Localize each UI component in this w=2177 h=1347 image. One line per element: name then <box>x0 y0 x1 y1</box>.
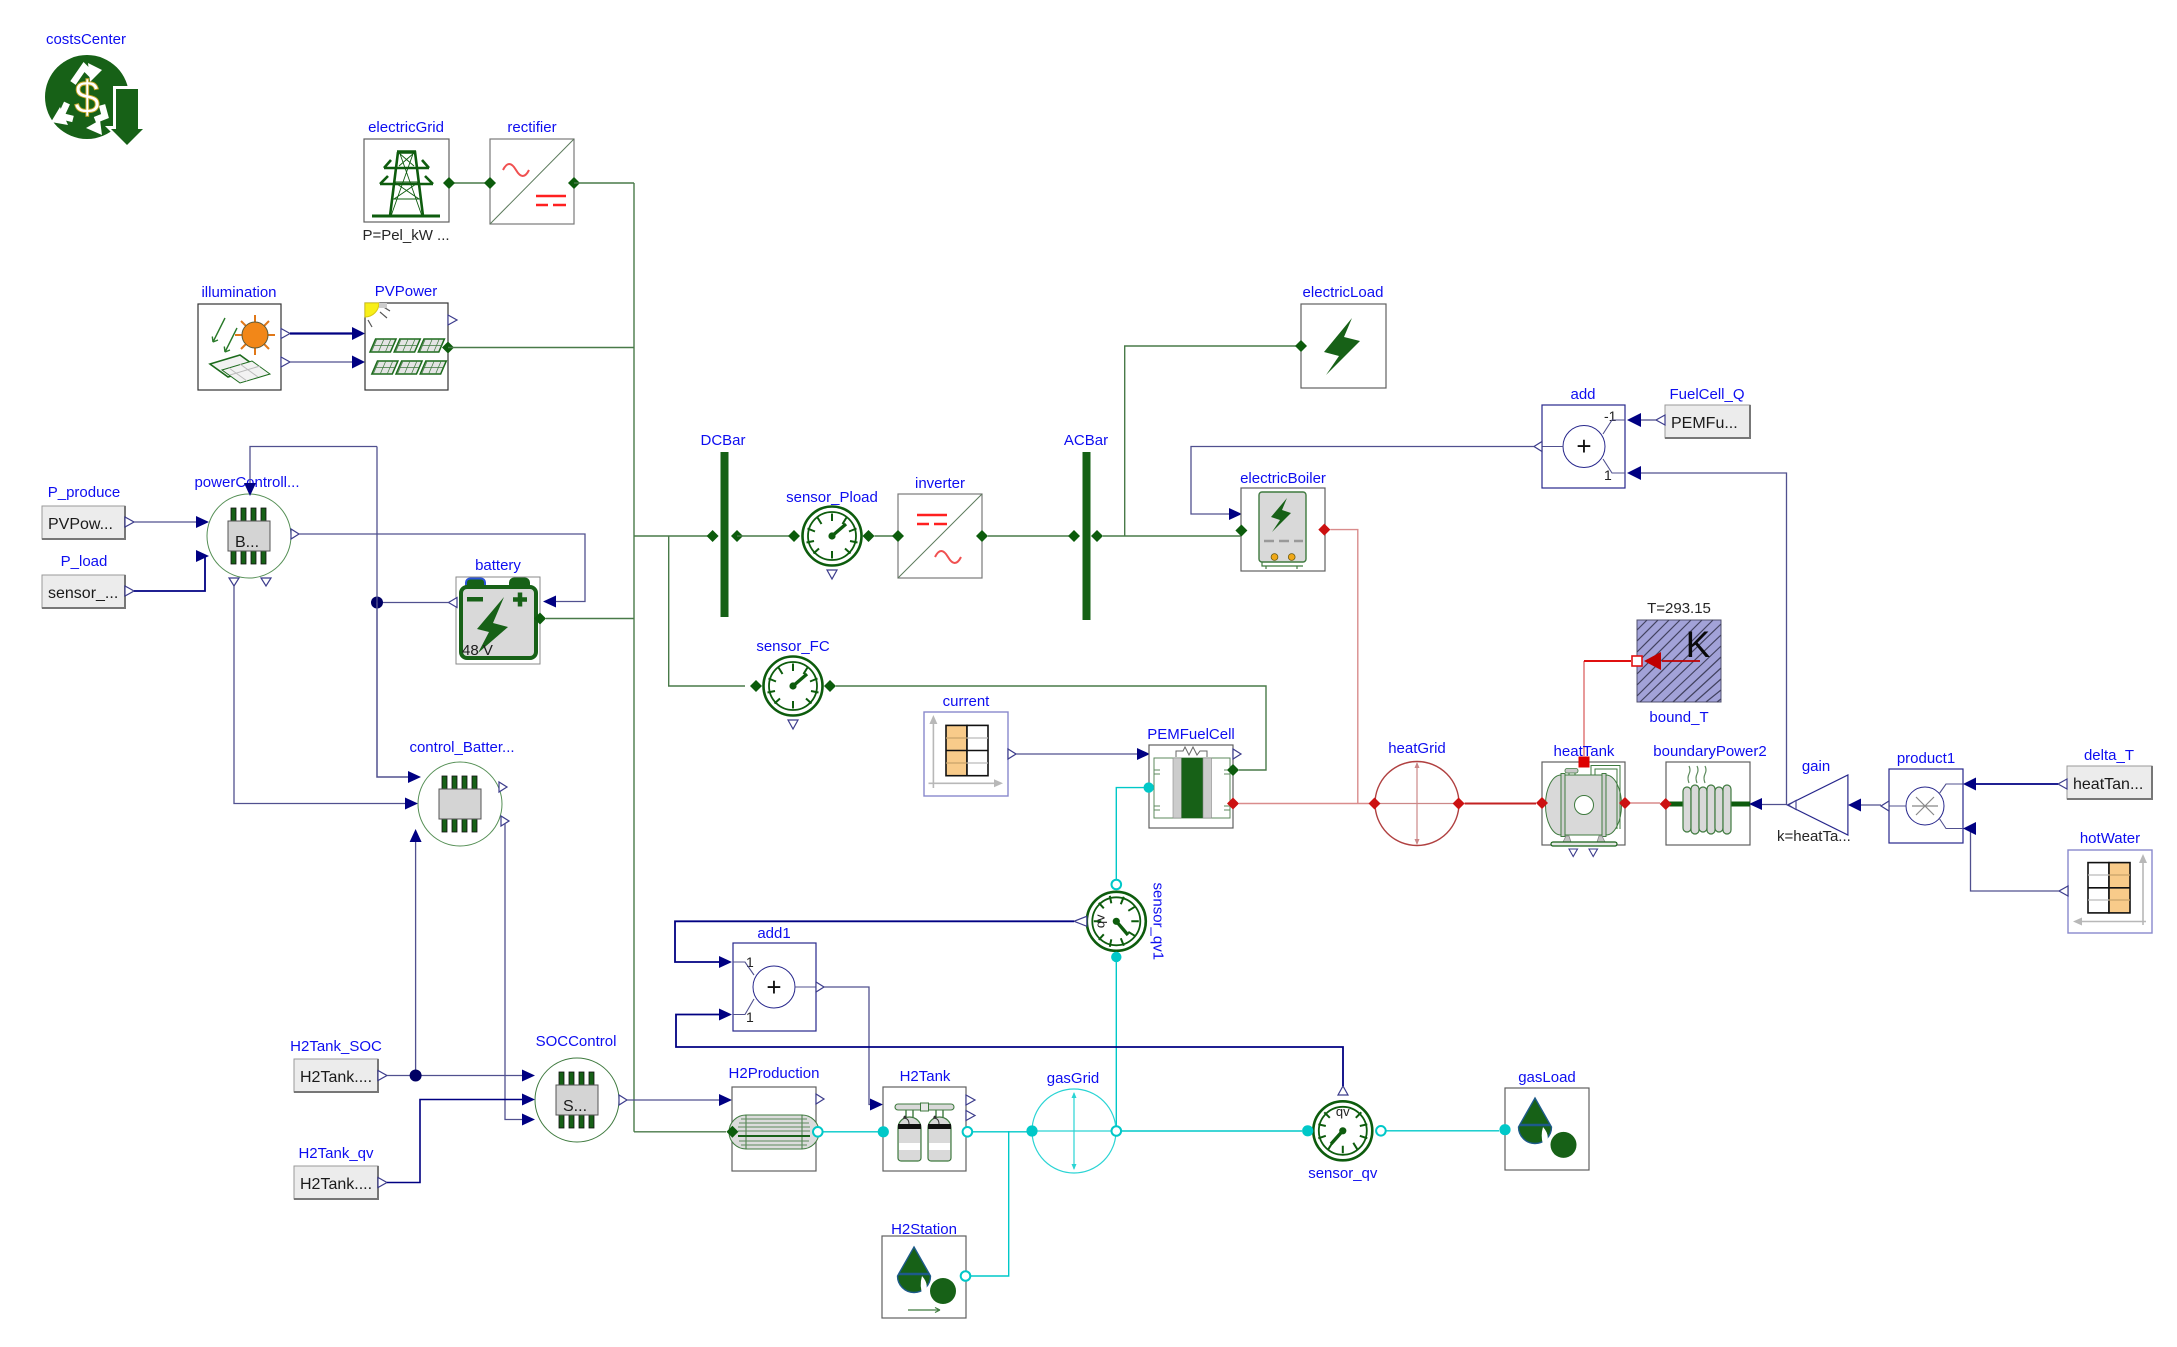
port triangle FuelCell_Q out <box>1656 415 1665 425</box>
gasGrid <box>1032 1070 1116 1173</box>
port triangle PVPower out top <box>448 315 457 325</box>
port triangle product1 out <box>1881 801 1889 811</box>
boundaryPower2 <box>1653 743 1766 845</box>
svg-text:control_Batter...: control_Batter... <box>409 739 514 756</box>
sensor_FC <box>756 638 830 729</box>
port triangle H2Production out top <box>816 1094 824 1104</box>
wire sensor_FC branch vertical <box>669 536 745 686</box>
port circle PEMFuelCell gas <box>1144 782 1154 792</box>
port circle H2Station out <box>961 1271 971 1281</box>
port triangle PEMFuelCell out top <box>1233 749 1241 759</box>
svg-text:sensor_...: sensor_... <box>48 585 118 602</box>
wire sensor_FC to PEMFuelCell <box>836 686 1266 770</box>
wire ACBar to electricBoiler <box>1103 535 1241 537</box>
svg-text:gasGrid: gasGrid <box>1047 1070 1100 1087</box>
svg-text:delta_T: delta_T <box>2084 747 2134 764</box>
wire inverter to ACBar <box>988 535 1074 537</box>
svg-text:1: 1 <box>746 954 754 970</box>
costsCenter <box>45 31 149 148</box>
arrow bound_T input <box>1662 660 1700 662</box>
port diamond battery right <box>534 613 546 625</box>
port triangle control_Battery out2 <box>501 816 509 826</box>
svg-text:T=293.15: T=293.15 <box>1647 600 1711 617</box>
svg-text:gain: gain <box>1802 758 1830 775</box>
port circle sensor_qv in <box>1302 1125 1313 1136</box>
svg-text:48 V: 48 V <box>462 642 493 659</box>
port diamond electricBoiler left <box>1235 525 1247 537</box>
wire H2Production to H2Tank <box>823 1131 878 1133</box>
port diamond ACBar right <box>1091 530 1103 542</box>
wire gain node to add u2 <box>1641 473 1787 805</box>
svg-text:qv: qv <box>1336 1104 1350 1119</box>
svg-text:bound_T: bound_T <box>1649 709 1708 726</box>
svg-text:H2Tank_qv: H2Tank_qv <box>298 1145 374 1162</box>
port triangle heatTank bottom2 <box>1589 849 1598 857</box>
heatTank <box>1542 743 1625 846</box>
port circle sensor_qv out <box>1376 1126 1386 1136</box>
sensor_Pload <box>786 489 878 579</box>
port triangle H2Tank_qv out <box>378 1178 387 1188</box>
port diamond DCBar left <box>707 530 719 542</box>
svg-text:inverter: inverter <box>915 475 965 492</box>
svg-text:add1: add1 <box>757 925 790 942</box>
wire battery left to junction <box>377 602 449 604</box>
electricGrid <box>362 119 449 244</box>
port diamond sensor_FC right <box>824 680 836 692</box>
port triangle H2Tank_SOC out <box>378 1071 387 1081</box>
port diamond rectifier left <box>484 177 496 189</box>
port triangle sensor_qv1 out <box>1074 916 1087 926</box>
svg-text:P_load: P_load <box>61 553 108 570</box>
port diamond boundaryPower2 left <box>1660 798 1672 810</box>
port triangle hotWater out <box>2059 886 2068 896</box>
wire trunk to DCBar <box>634 535 712 537</box>
wire control_Battery out2 to SOCControl <box>505 824 522 1120</box>
svg-text:+: + <box>1576 431 1591 461</box>
svg-text:PVPower: PVPower <box>375 283 438 300</box>
port triangle P_produce out <box>125 517 134 527</box>
H2Tank_SOC <box>290 1038 382 1092</box>
port diamond heatGrid left <box>1369 798 1381 810</box>
current <box>924 693 1008 796</box>
port triangle delta_T out <box>2058 779 2067 789</box>
heatGrid <box>1375 740 1459 846</box>
wire P_produce to powerController <box>134 521 196 523</box>
svg-text:PEMFu...: PEMFu... <box>1671 415 1738 432</box>
svg-text:product1: product1 <box>1897 750 1955 767</box>
wire sensor_qv1 down to gasGrid <box>1115 957 1117 1126</box>
port diamond electricGrid right <box>443 177 455 189</box>
port diamond H2Production left <box>726 1126 738 1138</box>
svg-text:rectifier: rectifier <box>507 119 556 136</box>
svg-text:P=Pel_kW ...: P=Pel_kW ... <box>362 227 449 244</box>
wire sensor_qv to gasLoad <box>1386 1130 1499 1132</box>
gasLoad <box>1505 1069 1589 1170</box>
port circle gasGrid in <box>1026 1125 1037 1136</box>
svg-text:boundaryPower2: boundaryPower2 <box>1653 743 1766 760</box>
port diamond inverter right <box>976 530 988 542</box>
illumination <box>198 284 281 390</box>
svg-text:illumination: illumination <box>201 284 276 301</box>
P_produce <box>42 484 125 539</box>
svg-text:S...: S... <box>563 1098 587 1115</box>
svg-text:sensor_qv1: sensor_qv1 <box>1149 883 1166 961</box>
svg-text:H2Tank: H2Tank <box>900 1068 951 1085</box>
add1 <box>733 925 816 1031</box>
svg-text:sensor_FC: sensor_FC <box>756 638 830 655</box>
port square bound_T <box>1632 656 1642 666</box>
FuelCell_Q <box>1665 386 1750 438</box>
port triangle add out <box>1534 442 1542 452</box>
gain <box>1777 758 1851 845</box>
svg-text:K: K <box>1686 624 1711 665</box>
port circle sensor_qv1 bottom <box>1111 952 1121 962</box>
svg-text:current: current <box>943 693 991 710</box>
sensor_qv <box>1308 1101 1378 1182</box>
port circle H2Tank gas out <box>963 1127 973 1137</box>
wire delta_T to product1 <box>1976 783 2058 785</box>
port circle H2Production gas out <box>813 1127 823 1137</box>
H2Tank_qv <box>294 1145 378 1199</box>
wire sensor_Pload to inverter <box>875 535 899 537</box>
add <box>1542 386 1625 488</box>
P_load <box>42 553 125 608</box>
wire illumination-PVPower 2 <box>290 361 352 363</box>
port triangle control_Battery out1 <box>499 782 507 792</box>
port triangle H2Tank out2 <box>966 1111 975 1121</box>
svg-text:sensor_Pload: sensor_Pload <box>786 489 878 506</box>
port triangle sensor_qv up <box>1338 1086 1348 1095</box>
node junction H2Tank_SOC <box>410 1070 422 1082</box>
port diamond electricBoiler right <box>1318 524 1330 536</box>
port triangle H2Tank out1 <box>966 1095 975 1105</box>
port diamond sensor_Pload left <box>788 530 800 542</box>
port diamond electricLoad left <box>1295 340 1307 352</box>
svg-text:PVPow...: PVPow... <box>48 516 113 533</box>
wire add to electricBoiler <box>1191 447 1534 515</box>
svg-text:battery: battery <box>475 557 521 574</box>
wire gasGrid to sensor_qv <box>1121 1130 1302 1132</box>
wire H2Tank to gasGrid <box>972 1131 1027 1133</box>
port diamond heatTank left <box>1536 797 1548 809</box>
wire product1 to gain <box>1861 804 1881 806</box>
wire P_load to powerController <box>134 556 205 591</box>
port circle gasGrid out <box>1112 1126 1122 1136</box>
rectifier <box>490 119 574 224</box>
port diamond rectifier right <box>568 177 580 189</box>
svg-text:heatGrid: heatGrid <box>1388 740 1446 757</box>
svg-text:electricLoad: electricLoad <box>1303 284 1384 301</box>
hotWater <box>2068 830 2152 933</box>
port triangle P_load out <box>125 586 134 596</box>
inverter <box>898 475 982 578</box>
svg-text:ACBar: ACBar <box>1064 432 1108 449</box>
wire PEMFuelCell to sensor_qv1 <box>1116 788 1148 880</box>
port triangle powerController bottom2 <box>261 578 271 586</box>
ACBar <box>1064 432 1108 620</box>
wire battery-junction to powerController top <box>250 447 377 484</box>
wire DCBar to sensor_Pload <box>737 535 794 537</box>
wire PVPower to trunk <box>448 347 634 349</box>
svg-text:costsCenter: costsCenter <box>46 31 126 48</box>
port diamond inverter left <box>892 530 904 542</box>
svg-text:electricGrid: electricGrid <box>368 119 444 136</box>
port triangle illumination out2 <box>281 357 290 367</box>
svg-text:add: add <box>1570 386 1595 403</box>
port circle sensor_qv1 top <box>1112 880 1122 890</box>
sensor_qv1 <box>1087 883 1167 961</box>
wire sensor_qv to add1 <box>676 1015 1343 1087</box>
port triangle powerController out <box>291 529 299 539</box>
port triangle SOCControl out <box>619 1095 627 1105</box>
wire H2Tank_SOC junction up to control_Battery <box>415 842 417 1076</box>
wire electricGrid-rectifier <box>449 182 490 184</box>
svg-text:H2Tank....: H2Tank.... <box>300 1069 372 1086</box>
port diamond ACBar left <box>1068 530 1080 542</box>
delta_T <box>2067 747 2152 799</box>
wire junction up <box>376 447 378 603</box>
port diamond PVPower right <box>442 342 454 354</box>
svg-text:1: 1 <box>1604 467 1612 483</box>
port diamond heatGrid right <box>1453 798 1465 810</box>
wire electricBoiler to heat line <box>1330 530 1358 804</box>
PVPower <box>365 283 448 390</box>
port diamond sensor_Pload right <box>863 530 875 542</box>
svg-text:B...: B... <box>235 534 259 551</box>
wire SOCControl to H2Production <box>627 1099 719 1101</box>
wire sensor_qv1 to add1 <box>675 921 1074 962</box>
battery <box>456 557 540 664</box>
svg-text:DCBar: DCBar <box>700 432 745 449</box>
svg-text:H2Tank_SOC: H2Tank_SOC <box>290 1038 382 1055</box>
port circle gasLoad in <box>1499 1124 1510 1135</box>
port diamond DCBar right <box>731 530 743 542</box>
wire rectifier to DC trunk <box>574 182 634 184</box>
wire heatGrid to heatTank <box>1465 803 1536 805</box>
product1 <box>1889 750 1963 843</box>
wire hotWater to product1 <box>1971 829 2060 892</box>
DCBar <box>700 432 745 617</box>
wire junction down to control_Battery <box>377 603 408 778</box>
H2Production <box>729 1065 820 1171</box>
wire heatTank to bound_T <box>1583 661 1585 756</box>
wire PEMFuelCell to heatGrid <box>1239 803 1369 805</box>
port triangle powerController bottom1 <box>229 578 239 586</box>
port triangle illumination out1 <box>281 329 290 339</box>
electricBoiler <box>1240 470 1326 571</box>
powerController <box>194 474 299 578</box>
wire FuelCell_Q to add <box>1641 419 1656 421</box>
wire illumination-PVPower 1 <box>290 332 352 334</box>
wire powerController bottom1 to control_Battery <box>234 586 405 804</box>
wire current to PEMFuelCell <box>1016 753 1137 755</box>
port diamond PEMFuelCell green <box>1227 764 1239 776</box>
svg-text:H2Tank....: H2Tank.... <box>300 1176 372 1193</box>
control_Battery <box>409 739 514 846</box>
wire powerController to battery <box>299 534 585 602</box>
wire heatTank to boundaryPower2 <box>1631 802 1660 804</box>
svg-text:electricBoiler: electricBoiler <box>1240 470 1326 487</box>
wire gain to boundaryPower2 <box>1762 804 1787 806</box>
wire H2Tank_qv to SOCControl <box>387 1100 522 1183</box>
svg-text:sensor_qv: sensor_qv <box>1308 1165 1378 1182</box>
svg-text:P_produce: P_produce <box>48 484 121 501</box>
electricLoad <box>1301 284 1386 388</box>
svg-text:PEMFuelCell: PEMFuelCell <box>1147 726 1235 743</box>
wire add1 to H2Tank <box>824 987 870 1105</box>
wire ACBar branch to electricLoad <box>1125 346 1297 536</box>
svg-text:$: $ <box>74 71 100 123</box>
svg-text:qv: qv <box>1093 914 1108 928</box>
port diamond PEMFuelCell red <box>1227 798 1239 810</box>
svg-text:SOCControl: SOCControl <box>536 1033 617 1050</box>
node junction battery SOC <box>371 597 383 609</box>
svg-text:k=heatTa...: k=heatTa... <box>1777 828 1851 845</box>
port diamond heatTank right <box>1619 797 1631 809</box>
svg-text:heatTan...: heatTan... <box>2073 776 2143 793</box>
svg-text:+: + <box>766 972 781 1002</box>
port triangle add1 out <box>816 982 824 992</box>
port circle H2Tank gas in <box>878 1126 889 1137</box>
SOCControl <box>535 1033 619 1142</box>
bound_T <box>1637 600 1721 726</box>
wire trunk to H2Production <box>634 1131 726 1133</box>
port triangle battery left <box>449 598 458 608</box>
port triangle heatTank bottom1 <box>1569 849 1578 857</box>
H2Tank <box>883 1068 966 1171</box>
wire H2Tank_SOC to SOCControl <box>387 1075 522 1077</box>
svg-text:gasLoad: gasLoad <box>1518 1069 1576 1086</box>
svg-text:hotWater: hotWater <box>2080 830 2140 847</box>
svg-text:H2Production: H2Production <box>729 1065 820 1082</box>
wire DC trunk vertical <box>633 183 635 1132</box>
svg-text:FuelCell_Q: FuelCell_Q <box>1669 386 1744 403</box>
port triangle current out <box>1008 749 1016 759</box>
wire battery to trunk <box>546 618 634 620</box>
PEMFuelCell <box>1147 726 1235 828</box>
wire H2Station to gas line <box>970 1131 1008 1276</box>
H2Station <box>882 1221 966 1318</box>
arrow boundaryPower2 input <box>1749 798 1762 810</box>
port diamond sensor_FC left <box>750 680 762 692</box>
